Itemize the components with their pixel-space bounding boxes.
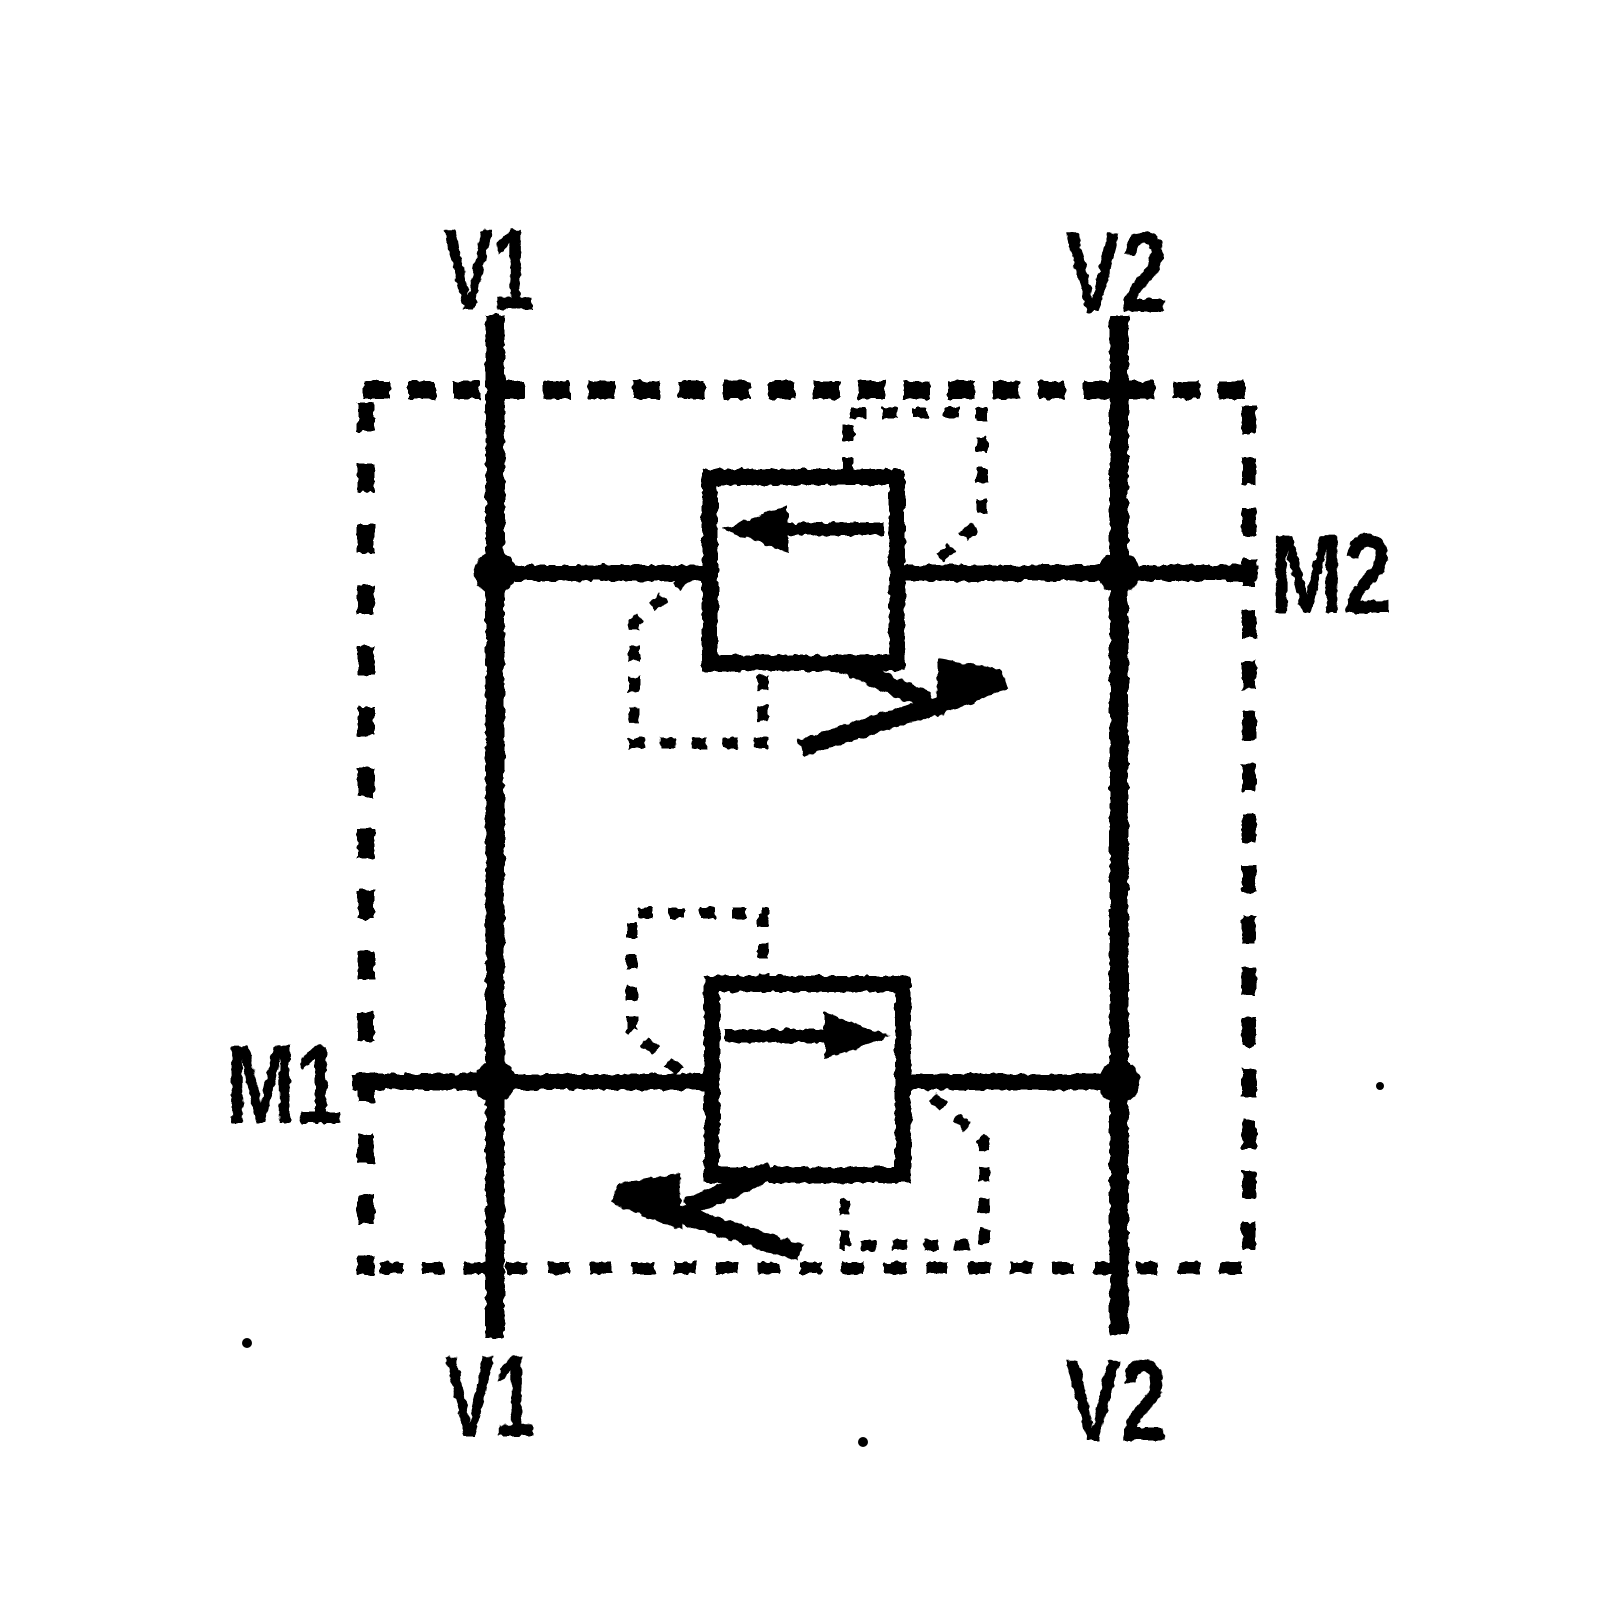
wire: V2 vertical line [1110, 316, 1129, 1334]
svg-text:V2: V2 [1065, 1337, 1167, 1465]
stray scan speck bottom centre [858, 1437, 868, 1447]
pilot line RV1 upper (valve top to M2 line) [848, 413, 982, 567]
svg-text:V2: V2 [1065, 209, 1167, 337]
relief valve RV1 spring stroke [843, 664, 928, 701]
relief valve RV2 adjustment arrow [605, 1173, 800, 1253]
svg-text:V1: V1 [445, 1333, 535, 1461]
junction node V2/M2 [1098, 552, 1140, 594]
enclosure dashed boundary: bottom edge [380, 1262, 1250, 1274]
pilot line RV2 upper (valve top to M1 line) [632, 913, 763, 1076]
relief valve RV2 spring stroke [687, 1171, 772, 1208]
svg-text:M1: M1 [226, 1022, 342, 1147]
svg-text:M2: M2 [1270, 512, 1392, 637]
stray scan speck right of M1 line [1376, 1082, 1384, 1090]
relief valve RV2 body (square) [712, 984, 903, 1175]
stray scan speck below M1 label [242, 1338, 252, 1348]
enclosure dashed boundary: right edge [1242, 406, 1256, 1268]
relief valve RV2 flow arrow (pointing right) [725, 1012, 890, 1060]
wire: M2 line right segment (RV1 to M2 port) [893, 565, 1258, 581]
enclosure dashed boundary: left edge [358, 402, 375, 1275]
wire: M2 line left segment (V1 junction to valve RV1) [495, 565, 714, 581]
junction node V2/M1 [1098, 1061, 1140, 1103]
pilot line RV1 lower (M2 line to valve bottom) [634, 577, 763, 743]
pilot line RV2 lower (M1 line to valve bottom) [845, 1097, 984, 1245]
junction node V1/M1 [474, 1061, 516, 1103]
svg-text:V1: V1 [444, 206, 534, 334]
enclosure dashed boundary: top edge [363, 381, 1256, 399]
wire: M1 line right segment (RV2 to V2 junction) [899, 1074, 1119, 1090]
wire: M1 line left segment (M1 port to valve RV2) [352, 1074, 716, 1090]
relief valve RV1 body (square) [710, 477, 897, 663]
junction node V1/M2 [474, 552, 516, 594]
wire: V1 vertical line [486, 315, 505, 1338]
relief valve RV1 adjustment arrow [801, 658, 1013, 748]
relief valve RV1 flow arrow (pointing left) [722, 505, 884, 553]
